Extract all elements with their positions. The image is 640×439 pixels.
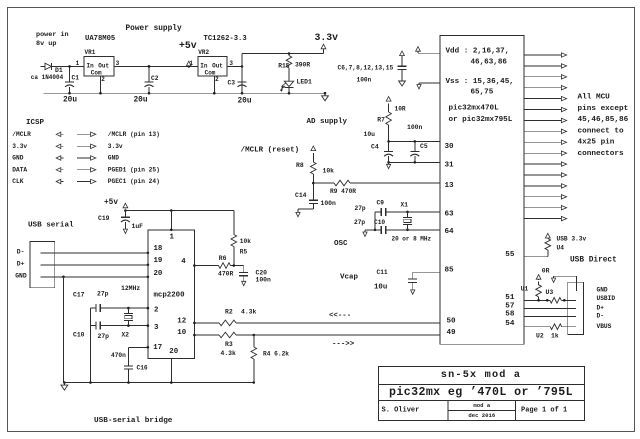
svg-text:DATA: DATA <box>12 166 27 173</box>
svg-text:Vss : 15,36,45,: Vss : 15,36,45, <box>446 78 514 86</box>
svg-text:64: 64 <box>445 228 455 236</box>
svg-text:--->>: --->> <box>332 340 355 348</box>
svg-text:20: 20 <box>169 348 178 356</box>
svg-text:C20: C20 <box>256 269 268 276</box>
svg-text:3: 3 <box>229 60 233 67</box>
svg-text:C11: C11 <box>377 269 388 276</box>
svg-text:pic32mx eg ’470L or ’795L: pic32mx eg ’470L or ’795L <box>389 386 573 399</box>
svg-text:3.3v: 3.3v <box>315 32 339 43</box>
svg-text:19: 19 <box>154 257 163 265</box>
svg-text:17: 17 <box>153 344 162 352</box>
svg-text:470R: 470R <box>218 270 234 277</box>
svg-text:UA78M05: UA78M05 <box>85 35 115 43</box>
svg-text:C17: C17 <box>73 292 85 299</box>
svg-text:D+: D+ <box>17 261 25 268</box>
svg-text:X2: X2 <box>122 332 130 339</box>
svg-text:C10: C10 <box>73 331 85 338</box>
svg-text:Power supply: Power supply <box>126 25 182 33</box>
svg-text:10u: 10u <box>364 131 376 138</box>
svg-text:2: 2 <box>101 76 105 83</box>
svg-text:USB-serial bridge: USB-serial bridge <box>94 417 173 425</box>
svg-text:ICSP: ICSP <box>26 119 45 127</box>
svg-text:C9: C9 <box>377 200 385 207</box>
svg-text:13: 13 <box>445 182 455 190</box>
svg-text:sn-5x mod a: sn-5x mod a <box>441 369 521 381</box>
svg-text:PGED1 (pin 25): PGED1 (pin 25) <box>108 166 160 173</box>
svg-text:TC1262-3.3: TC1262-3.3 <box>204 35 247 43</box>
svg-text:27p: 27p <box>354 219 365 226</box>
svg-text:connect to: connect to <box>578 127 625 135</box>
svg-text:D-: D- <box>17 249 25 256</box>
svg-text:10u: 10u <box>374 284 387 292</box>
svg-text:R3: R3 <box>225 341 233 348</box>
svg-text:LED1: LED1 <box>297 79 313 86</box>
svg-text:X1: X1 <box>401 202 409 209</box>
svg-text:PGEC1 (pin 24): PGEC1 (pin 24) <box>108 178 160 185</box>
svg-text:20u: 20u <box>63 97 77 105</box>
svg-text:1uF: 1uF <box>132 223 144 230</box>
svg-text:/MCLR (pin 13): /MCLR (pin 13) <box>108 131 160 138</box>
svg-text:46,63,86: 46,63,86 <box>471 59 508 67</box>
svg-text:R6: R6 <box>219 255 227 262</box>
svg-text:85: 85 <box>445 266 455 274</box>
svg-text:100n: 100n <box>256 277 272 284</box>
svg-text:2: 2 <box>154 307 158 315</box>
svg-text:10R: 10R <box>395 105 406 112</box>
svg-text:20u: 20u <box>238 97 252 105</box>
svg-text:3: 3 <box>154 324 159 332</box>
svg-text:pins except: pins except <box>578 105 629 113</box>
svg-text:USB serial: USB serial <box>28 221 74 229</box>
svg-text:390R: 390R <box>295 62 310 69</box>
svg-text:4x25 pin: 4x25 pin <box>578 139 615 147</box>
svg-text:AD supply: AD supply <box>307 118 348 126</box>
svg-text:18: 18 <box>154 245 163 253</box>
svg-text:Vdd : 2,16,37,: Vdd : 2,16,37, <box>446 48 510 56</box>
svg-text:R9 470R: R9 470R <box>330 188 356 195</box>
svg-text:dec 2016: dec 2016 <box>468 412 495 419</box>
svg-text:VBUS: VBUS <box>597 323 612 330</box>
svg-text:12: 12 <box>177 318 186 326</box>
svg-text:D1: D1 <box>55 67 63 74</box>
svg-text:ca 1N4004: ca 1N4004 <box>31 74 64 81</box>
svg-text:20 or 8 MHz: 20 or 8 MHz <box>392 236 432 243</box>
svg-text:R2: R2 <box>225 308 233 315</box>
svg-text:power in: power in <box>36 31 69 39</box>
svg-text:27p: 27p <box>355 205 366 212</box>
svg-text:1k: 1k <box>551 332 559 339</box>
svg-text:C16: C16 <box>137 364 148 371</box>
svg-text:63: 63 <box>445 211 455 219</box>
svg-text:100n: 100n <box>321 200 337 207</box>
svg-text:USBID: USBID <box>597 295 616 302</box>
svg-text:27p: 27p <box>98 333 110 340</box>
svg-text:mod a: mod a <box>473 402 490 409</box>
svg-text:C14: C14 <box>295 192 307 199</box>
svg-text:VR2: VR2 <box>198 49 209 56</box>
svg-text:R7: R7 <box>377 116 385 123</box>
svg-text:GND: GND <box>12 155 23 162</box>
svg-text:10k: 10k <box>240 238 251 245</box>
svg-text:VR1: VR1 <box>85 49 96 56</box>
svg-text:58: 58 <box>505 310 515 318</box>
svg-text:C6,7,8,12,13,15: C6,7,8,12,13,15 <box>338 65 394 72</box>
svg-text:57: 57 <box>505 302 515 310</box>
svg-text:31: 31 <box>445 162 455 170</box>
svg-text:/MCLR (reset): /MCLR (reset) <box>241 146 300 154</box>
svg-text:C19: C19 <box>98 215 110 222</box>
svg-text:55: 55 <box>505 251 515 259</box>
svg-text:/MCLR: /MCLR <box>12 131 31 138</box>
svg-text:10k: 10k <box>323 168 335 175</box>
svg-text:100n: 100n <box>357 77 372 84</box>
svg-text:C1: C1 <box>72 75 80 82</box>
svg-text:45,46,85,86: 45,46,85,86 <box>578 116 629 124</box>
svg-text:U4: U4 <box>557 245 565 252</box>
svg-text:U3: U3 <box>546 289 554 296</box>
svg-text:S. Oliver: S. Oliver <box>382 407 420 415</box>
svg-text:R15: R15 <box>278 62 290 69</box>
svg-text:R5: R5 <box>240 249 248 256</box>
svg-text:C3: C3 <box>228 80 236 87</box>
svg-text:0R: 0R <box>542 268 550 275</box>
svg-text:or pic32mx795L: or pic32mx795L <box>449 116 513 124</box>
svg-text:4: 4 <box>181 258 186 266</box>
svg-text:D+: D+ <box>597 304 605 311</box>
svg-text:1: 1 <box>76 60 80 67</box>
svg-text:GND: GND <box>597 287 608 294</box>
svg-text:2: 2 <box>215 76 219 83</box>
svg-text:Page 1 of 1: Page 1 of 1 <box>521 407 567 415</box>
svg-text:<<---: <<--- <box>329 312 351 320</box>
svg-text:3: 3 <box>116 60 120 67</box>
svg-text:GND: GND <box>108 155 119 162</box>
svg-text:C2: C2 <box>151 75 159 82</box>
svg-text:20u: 20u <box>134 97 148 105</box>
svg-text:R8: R8 <box>296 162 304 169</box>
svg-text:C10: C10 <box>374 219 385 226</box>
svg-text:USB Direct: USB Direct <box>570 256 617 264</box>
svg-text:51: 51 <box>505 294 515 302</box>
svg-text:20: 20 <box>154 270 163 278</box>
svg-text:30: 30 <box>445 143 455 151</box>
svg-text:All MCU: All MCU <box>578 94 611 102</box>
svg-text:U1: U1 <box>521 285 529 292</box>
svg-text:+5v: +5v <box>104 199 118 207</box>
svg-text:27p: 27p <box>97 290 109 297</box>
svg-text:USB 3.3v: USB 3.3v <box>557 235 587 242</box>
svg-text:50: 50 <box>447 318 457 326</box>
svg-text:R4 6.2k: R4 6.2k <box>263 351 289 358</box>
svg-text:C4: C4 <box>371 143 379 150</box>
svg-text:3.3v: 3.3v <box>12 143 27 150</box>
svg-text:49: 49 <box>447 329 457 337</box>
svg-text:100n: 100n <box>407 124 423 131</box>
svg-text:connectors: connectors <box>578 150 625 158</box>
svg-text:470n: 470n <box>111 352 126 359</box>
svg-text:C5: C5 <box>420 143 428 150</box>
svg-text:D-: D- <box>597 313 604 320</box>
svg-text:mcp2200: mcp2200 <box>154 291 186 299</box>
svg-text:1: 1 <box>189 60 193 67</box>
svg-text:54: 54 <box>505 320 515 328</box>
svg-text:OSC: OSC <box>334 240 348 248</box>
svg-text:1: 1 <box>170 233 175 241</box>
svg-text:CLK: CLK <box>12 178 23 185</box>
svg-text:Vcap: Vcap <box>340 273 359 281</box>
svg-text:65,75: 65,75 <box>471 88 494 96</box>
svg-text:3.3v: 3.3v <box>108 143 123 150</box>
svg-text:U2: U2 <box>536 332 544 339</box>
svg-text:pic32mx470L: pic32mx470L <box>449 105 500 113</box>
svg-text:8v up: 8v up <box>36 40 56 48</box>
svg-text:4.3k: 4.3k <box>221 350 237 357</box>
svg-text:10: 10 <box>177 329 186 337</box>
svg-text:GND: GND <box>15 273 27 280</box>
svg-text:12MHz: 12MHz <box>121 285 140 292</box>
svg-text:4.3k: 4.3k <box>241 308 257 315</box>
svg-text:+5v: +5v <box>179 40 197 51</box>
